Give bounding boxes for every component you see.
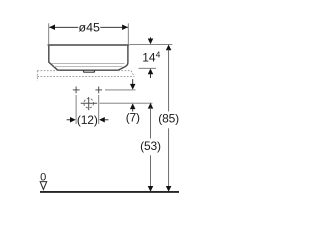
drain connection circle dashed [84, 98, 94, 108]
dimension ø45 extension line left [48, 23, 50, 44]
dimension 14 top arrow [150, 37, 152, 40]
countertop top surface dashed (left of basin) [37, 70, 57, 72]
svg-text:ø45: ø45 [79, 20, 100, 34]
svg-text:(85): (85) [158, 112, 179, 126]
drain connection crosshair [81, 97, 98, 110]
dimension (12) extension line left [75, 95, 77, 124]
svg-text:14: 14 [142, 51, 156, 65]
dimension ø45 line left part [49, 26, 78, 28]
dimension 14 bottom arrow [148, 69, 154, 75]
dimension 14 bottom reference line [139, 67, 157, 69]
tap hole centermark left [73, 87, 80, 94]
tap hole centermark right [95, 87, 102, 94]
dimension (53) shaft lower [150, 155, 152, 187]
dimension (85) shaft upper [168, 50, 170, 112]
basin inner bottom line lower [54, 66, 123, 68]
countertop right end dashed [131, 71, 134, 77]
countertop bottom surface dashed [37, 75, 134, 77]
basin inner bottom line upper [52, 63, 125, 65]
drain boss under basin [84, 70, 95, 72]
countertop left end dashed [36, 71, 38, 81]
dimension (12) extension line right [98, 95, 100, 124]
reference line drain level [100, 102, 153, 104]
dimension (53) shaft upper [150, 108, 152, 139]
dimension (85) bottom arrow [166, 186, 172, 192]
dimension (85) top arrow [166, 45, 172, 51]
dimension (53) bottom arrow [148, 186, 154, 192]
dimension ø45 extension line right [127, 23, 129, 44]
svg-text:(12): (12) [77, 113, 98, 127]
dimension (12) left arrow [67, 119, 71, 121]
floor line [40, 191, 179, 193]
dimension (7) bottom arrow [130, 103, 136, 109]
dimension (12) right arrow [99, 117, 105, 123]
svg-text:(7): (7) [126, 111, 140, 125]
dimension ø45 line right part [100, 26, 128, 28]
svg-text:4: 4 [156, 49, 161, 59]
dimension (85) shaft lower [168, 128, 170, 187]
svg-text:(53): (53) [140, 139, 161, 153]
countertop top surface dashed (right of basin) [118, 70, 131, 72]
basin outline [49, 46, 128, 71]
basin rim top edge [48, 44, 128, 46]
dimension (7) top arrow [132, 79, 134, 85]
reference line tap hole level [105, 89, 136, 91]
dimension (53) top arrow [148, 103, 154, 109]
dimension ø45 arrow right [122, 25, 128, 31]
dimension ø45 arrow left [49, 25, 55, 31]
basin rim extension line to right [130, 43, 173, 45]
datum triangle [40, 182, 47, 190]
